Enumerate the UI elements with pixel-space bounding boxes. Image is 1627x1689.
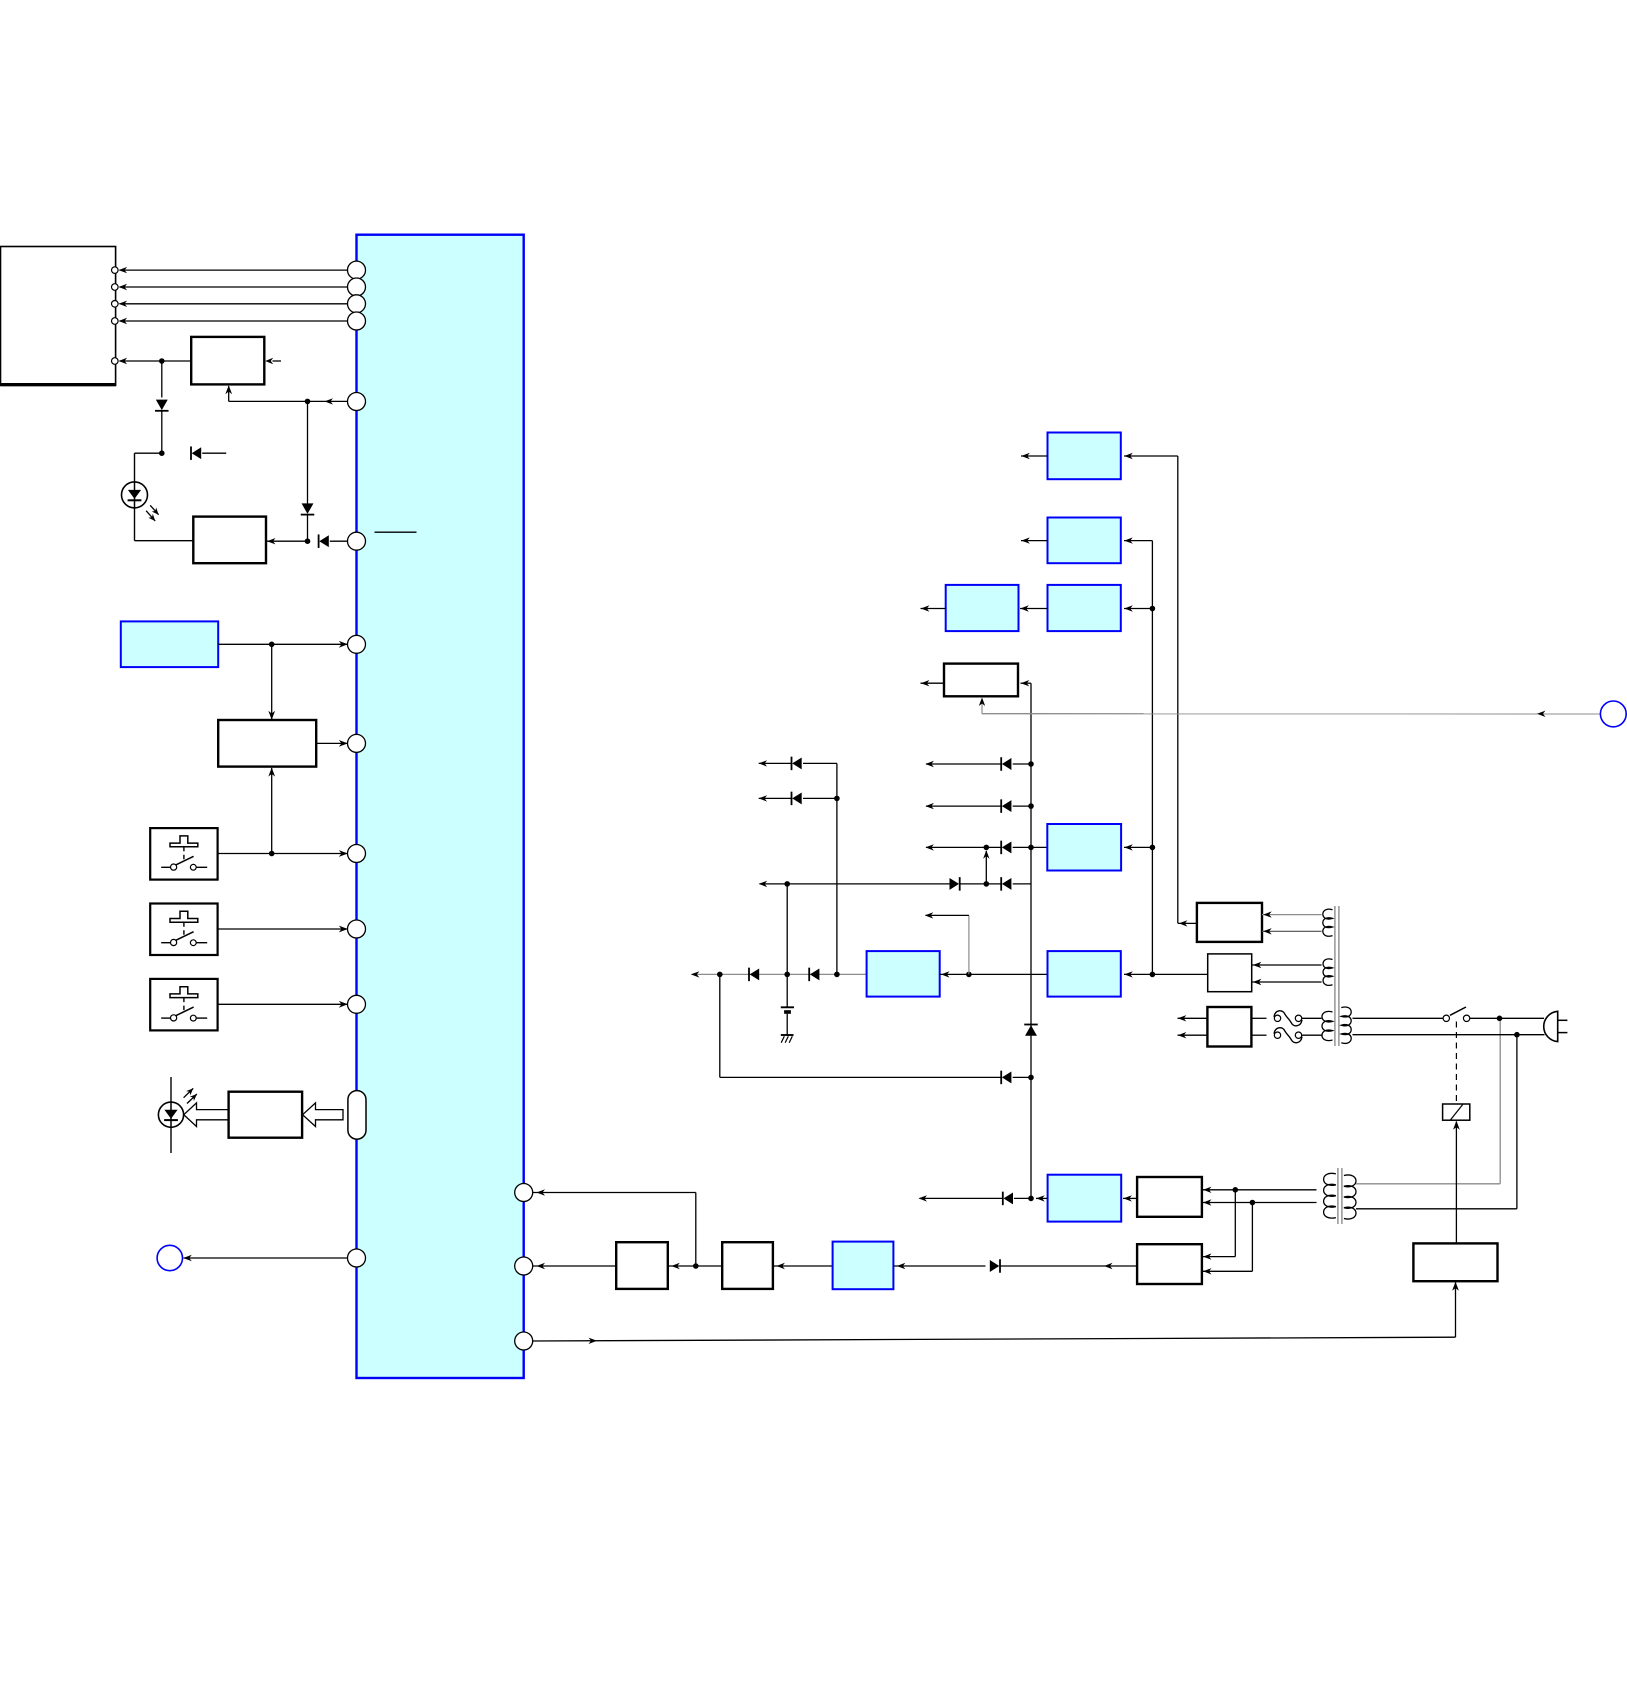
wire LED1 to driver B2 [134, 508, 136, 541]
pin U1 left 1 [348, 261, 366, 279]
junction J9 [1233, 1187, 1239, 1193]
pin U1 left 10 [348, 920, 366, 938]
diode row D11 (+B out 2) [759, 797, 792, 799]
switch S3 [150, 979, 217, 1031]
wire T1 w1 bottom to D7 [1262, 930, 1322, 932]
block arrow LED2 to B4 [184, 1103, 229, 1127]
wire T1 w2 to D8 bottom [1252, 981, 1322, 983]
wire T1 primary bottom to plug [1353, 1034, 1545, 1036]
wire D8 output to main node [1152, 973, 1207, 975]
wire C7 to C6 [1020, 608, 1048, 610]
wire A1 pin5 to regulator B1 [120, 360, 192, 362]
switch S1 (power key) [150, 828, 217, 880]
block D7 degauss (thick) [1197, 903, 1262, 942]
junction J1 [159, 358, 165, 364]
terminal A1 pin 2 [112, 284, 119, 291]
wire B8 inputs from T2 [1202, 1189, 1235, 1191]
wire V3 vertical [836, 763, 838, 974]
junction J4 [305, 538, 311, 544]
pin U1 left 11 [348, 995, 366, 1013]
diode D2 [190, 446, 192, 460]
wire main node to C10 [1124, 973, 1152, 975]
wire J17 stub from lower line [985, 851, 987, 884]
pin U1 right 2 [515, 1257, 533, 1275]
wire S1 to U1 pin9 [218, 853, 348, 855]
relay dashed link [1455, 1022, 1457, 1105]
diode D3 [301, 514, 315, 516]
diode D16 [1000, 877, 1002, 891]
wire D1 to J3 [161, 411, 163, 453]
block C4 regulator 1 (cyan) [1048, 433, 1121, 480]
plug AC mains [1544, 1011, 1558, 1041]
wire vertical from D8 node up to C5 [1151, 541, 1153, 975]
terminal A1 pin 3 [112, 301, 119, 308]
wire D6 stub left [920, 1197, 1003, 1199]
capacitor C11 branch [786, 974, 788, 1007]
pin U1 left 9 [348, 845, 366, 863]
diode D20 on V0 line [1024, 1024, 1038, 1026]
junction J7 [693, 1263, 699, 1269]
block D8 (thin) [1208, 954, 1252, 992]
pin U1 left 6 [348, 532, 366, 550]
pin U1 left 3 [348, 295, 366, 313]
junction J8 [1028, 1196, 1034, 1202]
led LED2 remote sensor [170, 1077, 172, 1153]
junction J23 [784, 972, 790, 978]
diode D17 [748, 968, 750, 982]
wire gray elbow from J25 [968, 915, 970, 974]
pin U1 left 8 [348, 734, 366, 752]
diode row D14 (right bank 3) [926, 846, 1001, 848]
junction J6 [269, 851, 275, 857]
wire bus1 U1 to A1 [120, 269, 349, 271]
pill port U1 (remote in) [348, 1091, 366, 1140]
block C9 standby reg (cyan) [867, 951, 940, 997]
junction J11 [1497, 1016, 1503, 1022]
diode D15 [959, 877, 961, 891]
junction J2 [305, 399, 311, 405]
junction J12 [1514, 1032, 1520, 1038]
wire J25 to C10 [969, 973, 1048, 975]
wire J5 down to oscillator B3 [271, 644, 273, 719]
wire U1 pin12 to CN1 [184, 1257, 349, 1259]
wire J20 down to main line [786, 884, 788, 975]
junction J25 [966, 972, 972, 978]
wire D7 output to V-line [1178, 922, 1197, 924]
junction J18 [1028, 845, 1034, 851]
junction J10 [1250, 1200, 1256, 1206]
wire B9 to relay RY1 [1455, 1122, 1457, 1244]
wire B7 to D5 [1000, 1265, 1137, 1267]
wire C5 output [1021, 540, 1048, 542]
wire feedback elbow to U1 right1 [695, 1193, 697, 1267]
wire C2 to B6 [773, 1265, 833, 1267]
wire D5 to C2 [893, 1265, 985, 1267]
block C1 reset (cyan) [121, 621, 218, 667]
terminal A1 pin 4 [112, 318, 119, 325]
wire vertical V0 line [1030, 683, 1032, 1198]
block C6 regulator 3 (cyan) [946, 585, 1019, 631]
block C2 photocoupler (cyan) [833, 1242, 894, 1290]
wire T1 primary top to switch S4 [1353, 1017, 1444, 1019]
wire SW1 node up to B3 bottom [271, 768, 273, 854]
wire D9 to fuse F2 [1251, 1034, 1266, 1036]
wire V0-line to B10 [1021, 682, 1032, 684]
block B8 (sub rectifier) [1137, 1177, 1202, 1217]
wire F1 to T1 [1302, 1017, 1322, 1019]
terminal A1 pin 1 [112, 267, 119, 274]
wire D9 to fuse F1 [1251, 1017, 1266, 1019]
block C3 standby supply (cyan) [1048, 1175, 1122, 1222]
main standby rail (gray) with diodes [692, 973, 867, 975]
pin U1 left 2 [348, 278, 366, 296]
wire C3 output left [1036, 1197, 1048, 1199]
wire V2-line to C4 [1124, 455, 1178, 457]
junction J16 [1028, 803, 1034, 809]
ic U1 system control (main cyan block) [357, 235, 524, 1378]
wire T1 w1 top to D7 (gray) [1262, 914, 1322, 916]
back-to-back diodes row [760, 883, 950, 885]
wire junction to C8 [1124, 846, 1152, 848]
wire B3 to U1 pin8 [316, 742, 348, 744]
connector CN1 (blue circle) [157, 1245, 182, 1270]
wire U1 pin5 to B1 bottom [308, 400, 348, 402]
ground [781, 1034, 794, 1036]
wire mute line gray to connector CN2 [981, 700, 983, 714]
wire F2 to T1 [1302, 1034, 1322, 1036]
diode D6 [1002, 1192, 1004, 1206]
wire T2 secondary bottom [1356, 1208, 1517, 1210]
pin U1 left 12 [348, 1249, 366, 1267]
wire J10 down to B7 [1251, 1203, 1253, 1272]
wire J3 to LED1 [135, 452, 162, 454]
junction J26 [1150, 972, 1156, 978]
wire U1 right3 relay drive [533, 1337, 1456, 1341]
wire C6 output [921, 608, 946, 610]
transformer T2 switching [1324, 1173, 1336, 1218]
terminal A1 pin 5 [112, 358, 119, 365]
junction J24 [834, 972, 840, 978]
wire bus3 U1 to A1 [120, 303, 349, 305]
junction J17 [984, 845, 990, 851]
pin U1 left 5 [348, 393, 366, 411]
wire B5 to U1 right2 [533, 1265, 616, 1267]
pin U1 right 3 [515, 1332, 533, 1350]
block B6 (isolator) [722, 1242, 773, 1289]
stub arrow into B1 right [273, 360, 282, 362]
wire D2 stub [202, 452, 226, 454]
wire bus4 U1 to A1 [120, 320, 349, 322]
diode D19 [1000, 1071, 1002, 1085]
wire B2 to U1 pin6 [266, 540, 308, 542]
block C10 (cyan) [1048, 951, 1121, 997]
wire D6 to J8 [1014, 1197, 1031, 1199]
remote receiver block B4 [229, 1092, 303, 1138]
wire junction to B5 [668, 1265, 722, 1267]
block B10 audio out (thick) [944, 664, 1018, 697]
diode D5 [999, 1259, 1001, 1273]
wire C8 row to J18 [1031, 846, 1047, 848]
junction J3 [159, 450, 165, 456]
wire T1 w2 to D8 top [1252, 964, 1322, 966]
wire D9 outputs left [1178, 1017, 1208, 1019]
junction J22 [717, 972, 723, 978]
connector CN2 (blue circle) [1600, 701, 1626, 727]
junction J13 [1150, 606, 1156, 612]
wire S3 to U1 pin11 [218, 1003, 348, 1005]
junction J21 [960, 883, 1002, 885]
wire J2 down to diode D3 [307, 401, 309, 503]
driver block B2 [193, 517, 266, 564]
wire T2 secondary top (gray) [1356, 1183, 1500, 1185]
relay driver block B9 [1413, 1243, 1497, 1281]
diode row D10 (+B out 1) [759, 762, 792, 764]
block C7 regulator 4 (cyan) [1048, 585, 1121, 631]
wire bus2 U1 to A1 [120, 286, 349, 288]
wire D4 to pin [330, 540, 348, 542]
block D9 line filter (thick) [1207, 1007, 1251, 1047]
wire J9 down to B7 [1234, 1190, 1236, 1257]
junction J5 [269, 642, 275, 648]
pin U1 left 7 [348, 635, 366, 653]
diode row D12 (right bank 1) [926, 763, 1001, 765]
junction J27 [1028, 1075, 1034, 1081]
transformer T1 power [1323, 909, 1333, 936]
wire J1 down to diode D1 [161, 361, 163, 398]
wire B10 output [921, 682, 945, 684]
box A1 front panel assembly (top left) [1, 247, 116, 386]
pin U1 right 1 [515, 1184, 533, 1202]
wire C1 to U1 pin7 [218, 643, 348, 645]
diode D1 [155, 410, 169, 412]
pin U1 left 4 [348, 312, 366, 330]
wire V1-line to C5 [1124, 540, 1152, 542]
wire S2 to U1 pin10 [218, 928, 348, 930]
return loop bottom wire [719, 974, 721, 1077]
fuse F1 [1274, 1015, 1280, 1021]
wire B8 to C3 [1123, 1197, 1137, 1199]
relay RY1 coil [1443, 1104, 1470, 1120]
oscillator block B3 [218, 720, 316, 767]
block B5 (error amp) [616, 1242, 668, 1289]
block C5 regulator 2 (cyan) [1048, 518, 1121, 564]
wire C4 output [1021, 455, 1048, 457]
diode row D13 (right bank 2) [926, 805, 1001, 807]
wire S4 to plug [1470, 1017, 1544, 1019]
block arrow B4 to U1 [303, 1103, 343, 1127]
wire J25 to C9 [940, 973, 969, 975]
switch S2 [150, 904, 217, 956]
diode D4 [318, 534, 320, 548]
block C8 regulator 5 (cyan) [1047, 824, 1121, 871]
junction J19 [1150, 845, 1156, 851]
wire junction to C7 [1124, 608, 1152, 610]
wire D16 to V0 corner [1013, 883, 1031, 885]
label stub inside U1 [375, 531, 417, 533]
junction J15 [1028, 761, 1034, 767]
led LED1 power indicator [122, 482, 148, 508]
switch S4 mains [1443, 1015, 1449, 1021]
junction J20 [784, 881, 790, 887]
regulator block B1 [191, 337, 264, 385]
wire D3 to J4 [307, 515, 309, 542]
diode D18 [808, 968, 810, 982]
rectifier block B7 [1137, 1244, 1202, 1284]
junction J14 [834, 796, 840, 802]
wire vertical from D7 up to C4 [1177, 456, 1179, 923]
fuse F2 [1274, 1032, 1280, 1038]
